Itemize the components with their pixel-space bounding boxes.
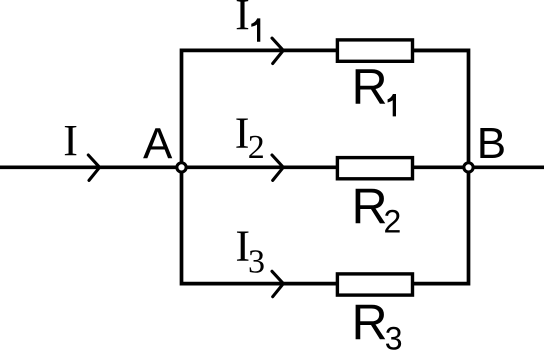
svg-text:A: A xyxy=(143,119,173,168)
node A xyxy=(177,163,186,172)
svg-text:3: 3 xyxy=(248,244,265,281)
arrow: current I on input wire xyxy=(88,155,99,180)
wire: middle branch from node A to resistor R2 xyxy=(182,165,338,169)
svg-text:I: I xyxy=(63,116,78,165)
svg-text:R: R xyxy=(352,295,388,350)
wire: main input from left edge to node A xyxy=(0,165,182,169)
arrow: current I3 on bottom branch xyxy=(272,271,283,296)
svg-text:2: 2 xyxy=(384,204,402,240)
svg-text:R: R xyxy=(352,179,388,235)
svg-text:R: R xyxy=(352,59,388,115)
svg-text:B: B xyxy=(477,119,506,168)
resistor R2 xyxy=(337,158,412,179)
node B xyxy=(464,163,473,172)
svg-text:3: 3 xyxy=(385,321,403,350)
wire: left bus with top and bottom branch starts xyxy=(182,50,338,283)
wire: middle branch from R2 to node B xyxy=(413,165,469,169)
wire: main output from node B to right edge xyxy=(469,165,544,169)
label I1 subscript 1 xyxy=(251,18,260,41)
arrow: current I1 on top branch xyxy=(272,38,283,63)
wire: right bus from top branch to bottom branch xyxy=(413,50,469,283)
resistor R3 xyxy=(337,274,412,295)
svg-text:2: 2 xyxy=(248,129,265,166)
arrow: current I2 on middle branch xyxy=(272,155,283,180)
resistor R1 xyxy=(337,40,412,61)
label R1 subscript 1 xyxy=(388,94,396,116)
wire: top branch from R1 to right bus xyxy=(413,49,469,53)
svg-text:I: I xyxy=(235,0,250,39)
